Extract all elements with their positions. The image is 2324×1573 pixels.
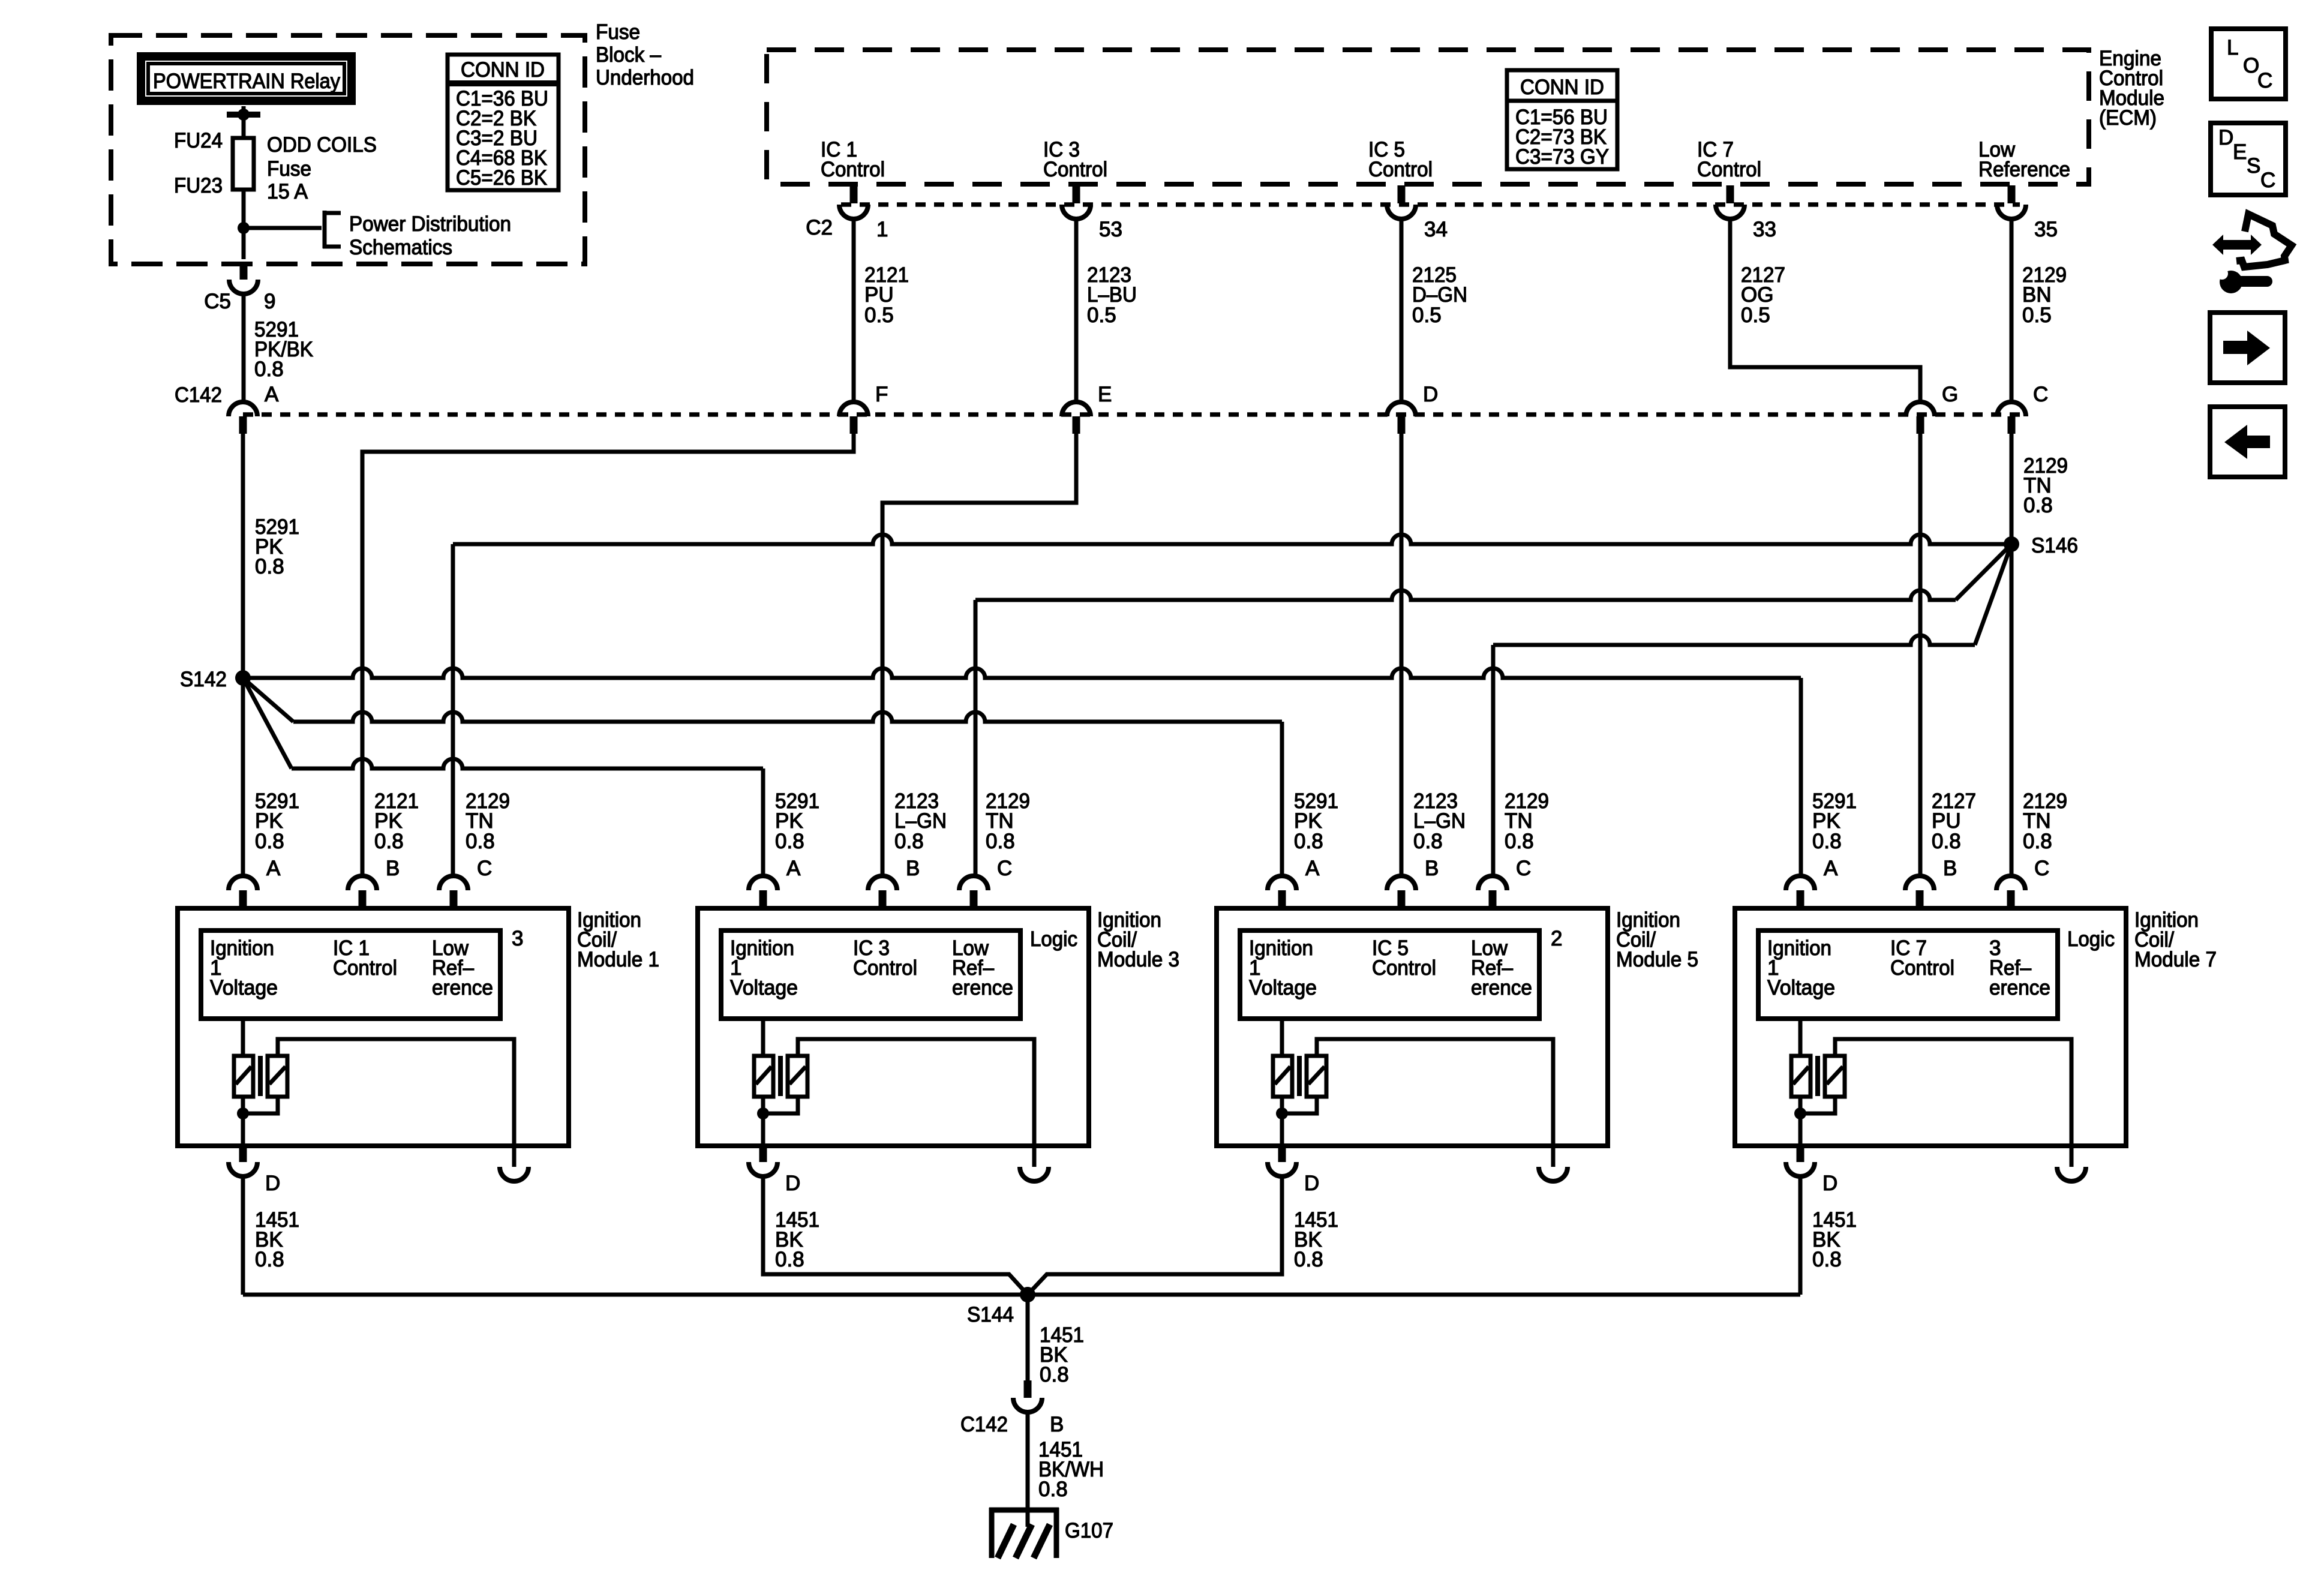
coil junction (module 7) bbox=[1794, 1107, 1806, 1119]
wire 2121 PK F to module1 B bbox=[362, 434, 854, 876]
wire 2125 IC5 to C142 D bbox=[1400, 219, 1404, 402]
ignition coil module 1 outer box bbox=[178, 908, 569, 1146]
wire 5291 PK S142 to module7 A bbox=[243, 668, 1801, 678]
svg-text:0.8: 0.8 bbox=[255, 555, 284, 578]
svg-text:Underhood: Underhood bbox=[596, 66, 694, 89]
svg-text:B: B bbox=[386, 857, 400, 880]
wire 2129 TN C to S146 bbox=[2010, 434, 2014, 544]
svg-text:0.5: 0.5 bbox=[1412, 304, 1442, 327]
relay POWERTRAIN Relay bbox=[137, 52, 356, 105]
Engine Control Module (ECM) dashed box bbox=[767, 50, 2089, 184]
junction to power distribution bbox=[238, 222, 250, 234]
connector C142 pin A bbox=[229, 402, 257, 416]
svg-text:ODD COILS: ODD COILS bbox=[267, 133, 377, 157]
svg-text:3: 3 bbox=[512, 927, 523, 950]
svg-text:0.8: 0.8 bbox=[986, 830, 1015, 853]
ignition coil module 7 outer box bbox=[1735, 908, 2126, 1146]
svg-text:erence: erence bbox=[432, 976, 493, 999]
svg-text:C: C bbox=[997, 857, 1012, 880]
svg-text:0.8: 0.8 bbox=[1038, 1478, 1068, 1501]
svg-text:C5=26 BK: C5=26 BK bbox=[456, 166, 547, 190]
wire 2123 L-GN E to module3 B bbox=[882, 434, 1076, 876]
wire 1451 BK module1 D down bbox=[241, 1176, 245, 1295]
coil windings (module 7) bbox=[1798, 1019, 1803, 1056]
icon forward arrow box bbox=[2210, 313, 2285, 383]
node S146 splice bbox=[2004, 536, 2019, 552]
svg-text:L: L bbox=[2227, 36, 2238, 59]
svg-text:Control: Control bbox=[1372, 956, 1436, 980]
svg-text:D: D bbox=[1304, 1172, 1319, 1195]
ignition coil module 7 inner box bbox=[1758, 930, 2058, 1019]
svg-text:0.8: 0.8 bbox=[1040, 1363, 1069, 1386]
svg-text:Module 1: Module 1 bbox=[577, 948, 659, 971]
svg-text:D: D bbox=[785, 1172, 800, 1195]
svg-text:Module 7: Module 7 bbox=[2134, 948, 2217, 971]
icon DESC box bbox=[2211, 123, 2286, 195]
svg-text:0.5: 0.5 bbox=[864, 304, 894, 327]
connector module 7 pin A bbox=[1786, 876, 1815, 890]
wire 2127 IC7 to C142 G bbox=[1730, 219, 1920, 402]
wire 2129 TN S146 to module1 C bbox=[453, 535, 2011, 544]
icon service info (arrow + wrench) bbox=[2212, 235, 2262, 255]
svg-text:E: E bbox=[1098, 383, 1112, 406]
svg-text:0.8: 0.8 bbox=[2023, 494, 2053, 517]
coil junction (module 3) bbox=[757, 1107, 769, 1119]
svg-text:S146: S146 bbox=[2031, 534, 2078, 557]
svg-text:0.8: 0.8 bbox=[1413, 830, 1443, 853]
connector module 3 pin D bbox=[759, 1146, 767, 1162]
svg-text:CONN ID: CONN ID bbox=[461, 58, 545, 82]
ground G107 bbox=[989, 1508, 1059, 1513]
wire 1451 BK module5 D to S144 bbox=[1028, 1176, 1282, 1295]
svg-text:C: C bbox=[477, 857, 492, 880]
svg-text:0.8: 0.8 bbox=[466, 830, 495, 853]
svg-text:G: G bbox=[1942, 383, 1958, 406]
svg-text:FU24: FU24 bbox=[174, 129, 223, 152]
wire to power distribution bracket bbox=[244, 226, 322, 230]
coil windings (module 3) bbox=[761, 1019, 765, 1056]
svg-text:(ECM): (ECM) bbox=[2099, 106, 2157, 130]
icon LOC box bbox=[2211, 29, 2286, 99]
svg-text:Module 3: Module 3 bbox=[1097, 948, 1179, 971]
CONN ID table (fuse block) bbox=[448, 55, 559, 190]
connector module 5 pin B bbox=[1387, 876, 1416, 890]
svg-text:Voltage: Voltage bbox=[1767, 976, 1835, 999]
wire 1451 BK S144 down bbox=[1026, 1295, 1030, 1380]
wire 1451 BK module7 D down bbox=[1798, 1176, 1803, 1295]
svg-text:Schematics: Schematics bbox=[349, 236, 452, 259]
svg-text:B: B bbox=[906, 857, 920, 880]
wire junction to fuse block edge bbox=[242, 228, 246, 259]
relay terminal bar bbox=[227, 112, 260, 118]
connector module 3 low ref return bbox=[1020, 1167, 1049, 1181]
svg-text:Reference: Reference bbox=[1978, 158, 2070, 181]
wire 2129 TN S146 to module7 C bbox=[2010, 544, 2014, 876]
svg-text:A: A bbox=[1824, 857, 1838, 880]
connector module 5 pin D bbox=[1278, 1146, 1286, 1162]
svg-text:B: B bbox=[1943, 857, 1957, 880]
svg-text:Control: Control bbox=[1368, 158, 1433, 181]
svg-text:C2: C2 bbox=[806, 216, 833, 239]
svg-text:F: F bbox=[875, 383, 888, 406]
svg-text:S142: S142 bbox=[180, 668, 227, 691]
svg-text:Control: Control bbox=[821, 158, 885, 181]
svg-text:erence: erence bbox=[1989, 976, 2050, 999]
connector C142 pin G bbox=[1906, 402, 1935, 416]
connector module 3 pin A bbox=[749, 876, 777, 890]
svg-text:C142: C142 bbox=[960, 1413, 1008, 1436]
connector module 1 pin C bbox=[439, 876, 468, 890]
wire 5291 PK S142 to module5 A bbox=[243, 678, 293, 722]
svg-text:B: B bbox=[1425, 857, 1439, 880]
connector C142 pin C bbox=[1997, 402, 2026, 416]
svg-text:0.8: 0.8 bbox=[1294, 1248, 1323, 1271]
wire 2129 TN S146 to module5 C bbox=[1975, 544, 2011, 645]
ignition coil module 5 inner box bbox=[1240, 930, 1539, 1019]
svg-text:A: A bbox=[1305, 857, 1320, 880]
svg-text:Control: Control bbox=[1890, 956, 1954, 980]
coil windings (module 1) bbox=[241, 1019, 245, 1056]
svg-text:FU23: FU23 bbox=[174, 174, 223, 197]
svg-text:0.8: 0.8 bbox=[255, 1248, 284, 1271]
svg-text:POWERTRAIN Relay: POWERTRAIN Relay bbox=[153, 70, 340, 93]
connector C142 pin E bbox=[1062, 402, 1091, 416]
connector line C142 (dotted) bbox=[243, 412, 2020, 417]
connector module 3 pin B bbox=[868, 876, 897, 890]
svg-text:1: 1 bbox=[876, 218, 888, 241]
wire 5291 PK S142 to module1 A bbox=[241, 678, 245, 876]
coil windings (module 5) bbox=[1280, 1019, 1284, 1056]
svg-text:0.8: 0.8 bbox=[374, 830, 404, 853]
connector module 1 low ref return bbox=[500, 1167, 529, 1181]
wire 2121 IC1 to C142 F bbox=[852, 219, 856, 402]
svg-text:15 A: 15 A bbox=[267, 180, 308, 203]
connector C5 pin 9 bbox=[240, 263, 248, 280]
svg-text:erence: erence bbox=[1471, 976, 1532, 999]
wire relay to fuse bbox=[242, 106, 246, 139]
connector module 7 pin B bbox=[1905, 876, 1934, 890]
svg-text:Module 5: Module 5 bbox=[1616, 948, 1698, 971]
connector module 5 pin A bbox=[1268, 876, 1296, 890]
svg-text:E: E bbox=[2233, 140, 2247, 164]
svg-text:S144: S144 bbox=[967, 1303, 1014, 1326]
connector C142 pin F bbox=[839, 402, 868, 416]
svg-text:0.8: 0.8 bbox=[1505, 830, 1534, 853]
wire 1451 BK ground bus bbox=[243, 1293, 1800, 1297]
svg-text:Voltage: Voltage bbox=[1249, 976, 1317, 999]
svg-text:D: D bbox=[1423, 383, 1438, 406]
coil junction (module 1) bbox=[237, 1107, 249, 1119]
svg-text:G107: G107 bbox=[1065, 1519, 1113, 1542]
wire 2123 IC3 to C142 E bbox=[1074, 219, 1079, 402]
svg-text:Control: Control bbox=[1697, 158, 1761, 181]
svg-text:A: A bbox=[786, 857, 801, 880]
svg-text:0.8: 0.8 bbox=[1812, 830, 1842, 853]
wire 2129 TN S146 to module3 C bbox=[1956, 544, 2011, 600]
connector module 5 pin C bbox=[1478, 876, 1507, 890]
svg-text:33: 33 bbox=[1753, 218, 1776, 241]
svg-text:Block –: Block – bbox=[596, 43, 662, 67]
svg-text:35: 35 bbox=[2034, 218, 2058, 241]
connector module 5 low ref return bbox=[1539, 1167, 1568, 1181]
wire 2127 PU G to module7 B bbox=[1918, 434, 1923, 876]
wire 5291 PK/BK bbox=[242, 294, 246, 402]
connector module 7 pin D bbox=[1797, 1146, 1804, 1162]
svg-text:0.5: 0.5 bbox=[2022, 304, 2052, 327]
svg-text:B: B bbox=[1050, 1413, 1064, 1436]
svg-text:Control: Control bbox=[333, 956, 397, 980]
svg-text:Power Distribution: Power Distribution bbox=[349, 212, 511, 236]
node S142 splice bbox=[235, 670, 251, 686]
svg-text:Voltage: Voltage bbox=[730, 976, 798, 999]
CONN ID table (ECM) bbox=[1507, 70, 1617, 169]
ignition coil module 1 inner box bbox=[201, 930, 500, 1019]
svg-text:0.8: 0.8 bbox=[255, 830, 284, 853]
svg-text:C: C bbox=[2034, 857, 2049, 880]
svg-text:C: C bbox=[2260, 169, 2275, 192]
svg-text:0.8: 0.8 bbox=[1932, 830, 1961, 853]
svg-text:9: 9 bbox=[264, 290, 275, 313]
wire 5291 PK S142 to module3 A bbox=[243, 678, 292, 769]
svg-text:Fuse: Fuse bbox=[267, 157, 311, 181]
svg-text:Fuse: Fuse bbox=[596, 20, 640, 44]
svg-text:CONN ID: CONN ID bbox=[1520, 76, 1604, 99]
relay terminal junction bbox=[238, 109, 250, 121]
svg-text:34: 34 bbox=[1424, 218, 1448, 241]
icon back arrow box bbox=[2210, 407, 2285, 477]
svg-text:C3=73 GY: C3=73 GY bbox=[1515, 145, 1609, 169]
coil junction (module 5) bbox=[1276, 1107, 1288, 1119]
wire 5291 PK C142 A to S142 bbox=[241, 434, 245, 678]
connector module 1 pin D bbox=[239, 1146, 247, 1162]
svg-text:C: C bbox=[2257, 69, 2272, 92]
svg-text:0.8: 0.8 bbox=[894, 830, 924, 853]
connector line C2 (dotted) bbox=[841, 202, 2020, 207]
svg-text:Control: Control bbox=[1043, 158, 1107, 181]
connector module 7 pin C bbox=[1996, 876, 2025, 890]
ignition coil module 3 outer box bbox=[698, 908, 1089, 1146]
svg-text:C142: C142 bbox=[175, 383, 222, 407]
svg-text:53: 53 bbox=[1099, 218, 1122, 241]
wire 1451 BK module3 D to S144 bbox=[763, 1176, 1028, 1295]
svg-text:A: A bbox=[265, 383, 279, 406]
svg-text:0.8: 0.8 bbox=[775, 830, 804, 853]
wire 2129 LowRef to C142 C bbox=[2010, 219, 2014, 402]
connector module 1 pin A bbox=[229, 876, 257, 890]
wire fuse to junction bbox=[242, 190, 246, 227]
connector module 7 low ref return bbox=[2057, 1167, 2086, 1181]
svg-text:C: C bbox=[2033, 383, 2048, 406]
svg-text:Logic: Logic bbox=[1030, 927, 1077, 951]
svg-text:0.8: 0.8 bbox=[1294, 830, 1323, 853]
node S144 splice bbox=[1020, 1287, 1035, 1302]
svg-text:2: 2 bbox=[1551, 927, 1562, 950]
svg-text:Logic: Logic bbox=[2067, 927, 2115, 951]
Fuse Block - Underhood dashed box bbox=[111, 35, 585, 264]
svg-text:0.8: 0.8 bbox=[2023, 830, 2052, 853]
svg-text:0.8: 0.8 bbox=[254, 358, 284, 381]
svg-text:0.8: 0.8 bbox=[1812, 1248, 1842, 1271]
ignition coil module 3 inner box bbox=[721, 930, 1020, 1019]
wire 2123 L-GN D to module5 B bbox=[1400, 434, 1404, 876]
svg-text:Voltage: Voltage bbox=[210, 976, 278, 999]
svg-text:D: D bbox=[2218, 126, 2233, 149]
svg-text:C: C bbox=[1516, 857, 1531, 880]
wire 2129 TN down to module1 C bbox=[451, 544, 455, 876]
svg-text:D: D bbox=[265, 1172, 280, 1195]
svg-text:erence: erence bbox=[952, 976, 1013, 999]
connector module 3 pin C bbox=[959, 876, 988, 890]
svg-text:A: A bbox=[266, 857, 281, 880]
svg-text:C5: C5 bbox=[204, 290, 231, 313]
svg-text:0.5: 0.5 bbox=[1087, 304, 1116, 327]
bracket Power Distribution Schematics bbox=[323, 211, 327, 248]
fuse ODD COILS 15A bbox=[233, 138, 254, 190]
svg-text:Control: Control bbox=[853, 956, 917, 980]
svg-text:0.8: 0.8 bbox=[775, 1248, 804, 1271]
connector C142 pin B bbox=[1024, 1380, 1032, 1398]
wire 1451 BK/WH to ground bbox=[1026, 1412, 1030, 1510]
ignition coil module 5 outer box bbox=[1217, 908, 1608, 1146]
connector module 1 pin B bbox=[348, 876, 377, 890]
svg-text:S: S bbox=[2247, 154, 2260, 178]
svg-text:D: D bbox=[1822, 1172, 1837, 1195]
connector C142 pin D bbox=[1387, 402, 1416, 416]
svg-text:0.5: 0.5 bbox=[1741, 304, 1770, 327]
